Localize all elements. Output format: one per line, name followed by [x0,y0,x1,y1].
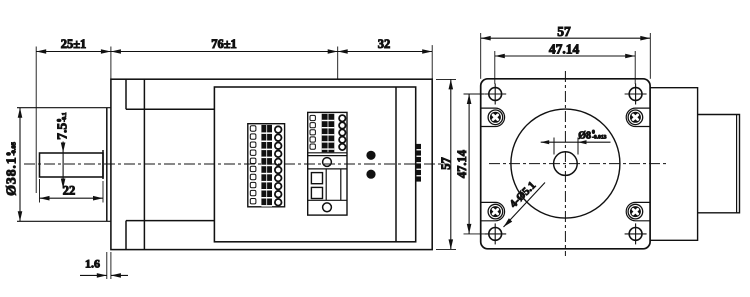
dimension 22 [40,184,104,201]
dimension 47.14 (left) [455,94,471,234]
extension line shaft tip [35,47,37,194]
cover screw top-right [626,108,650,126]
leader 4-Ø5.1 (mounting holes) [504,180,546,227]
svg-text:-0.1: -0.1 [62,112,68,122]
extension lines 57 front [481,33,651,79]
pilot boss top edge / extension [17,107,111,109]
cover screw bottom-left [481,202,505,220]
cover screw bottom-right [626,202,650,220]
rear housing end face line [736,115,738,213]
front end-bell line [143,79,145,249]
svg-text:Ø38.1: Ø38.1 [5,157,20,196]
svg-text:47.14: 47.14 [549,41,580,56]
shaft circle [554,152,578,176]
front view centre line horizontal [489,163,666,165]
svg-text:32: 32 [378,37,391,51]
dimension 47.14 (top) [495,41,635,58]
dimension 57 (side view height) [436,79,456,249]
dimension 1.6 (boss height) [80,252,128,279]
extension line rear end [431,45,433,79]
shaft [40,153,104,177]
svg-text:7.5: 7.5 [55,123,70,140]
svg-text:57: 57 [439,157,453,170]
DIP switch block [416,144,421,182]
LED dot lower [366,170,375,179]
dimension 32 [338,37,433,54]
centre line (side view) [24,163,447,165]
svg-text:47.14: 47.14 [455,149,469,178]
svg-text:1.6: 1.6 [85,257,100,271]
rear housing step 2 [698,115,740,213]
dimension 25±1 [36,37,111,54]
front view centre line vertical [564,71,566,256]
dimension 76±1 [111,37,338,54]
pilot circle [511,109,620,218]
extension line flange face [110,47,112,80]
mounting hole top-left [484,84,506,105]
svg-text:-0.05: -0.05 [10,141,17,155]
svg-text:22: 22 [63,184,76,198]
extension lines 47.14 left [464,94,485,234]
cover screw top-left [481,108,505,126]
mounting hole top-right [625,84,647,105]
pilot boss bottom edge / extension [17,220,111,222]
mounting hole bottom-left [484,223,506,244]
svg-text:-0.013: -0.013 [592,134,607,140]
svg-text:Ø8: Ø8 [578,131,591,142]
terminal block J1 (motor connector) [248,124,285,207]
rear housing step 1 [650,88,698,241]
flange step vertical bottom [125,221,127,250]
extension lines 47.14 top [495,51,635,84]
dimension Ø8 (shaft) [541,129,611,154]
driver end inner line [395,87,397,242]
extension lines for 22 [40,179,104,203]
flange step vertical top [125,79,127,109]
motor barrel top line [126,108,214,110]
svg-text:76±1: 76±1 [211,37,237,51]
connector J2 (signal connector) [308,112,347,215]
svg-text:25±1: 25±1 [61,37,87,51]
dimension 7.5 (shaft flat) [55,112,70,188]
svg-text:57: 57 [557,24,571,39]
dimension 57 (front width) [481,24,651,41]
motor body outline [111,79,432,249]
motor barrel bottom line [126,220,214,222]
mounting flange plate [481,79,650,249]
mounting hole bottom-right [625,223,647,244]
LED dot upper [366,151,375,160]
dimension Ø38.1 (pilot boss) [5,108,23,222]
driver housing [214,87,415,242]
shaft end line [102,150,104,179]
extension line 76/32 boundary [337,47,339,80]
pilot boss front face [106,108,108,222]
